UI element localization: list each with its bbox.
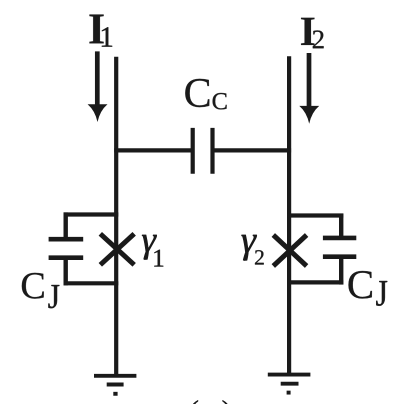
Josephson junction X right (junction 2) xyxy=(273,235,306,266)
ground right bar1 xyxy=(268,373,311,377)
wire: right CJ branch bottom stub xyxy=(339,258,343,285)
wire: left CJ branch bottom horizontal xyxy=(64,281,119,285)
label CJ left xyxy=(22,273,44,299)
ground right bar2 xyxy=(281,382,299,386)
capacitor CJ left bottom plate xyxy=(49,255,84,260)
ground right bar3 xyxy=(287,391,291,395)
capacitor CJ right top plate xyxy=(323,236,356,241)
wire: left CJ branch top horizontal xyxy=(64,212,119,216)
label CC xyxy=(185,79,209,107)
wire: right CJ branch top horizontal xyxy=(287,213,343,217)
wire: right CJ branch bottom horizontal xyxy=(287,280,343,284)
wire: left CJ branch top stub xyxy=(63,212,67,238)
capacitor CC left plate xyxy=(191,128,195,174)
ground left bar1 xyxy=(94,374,136,378)
capacitor CJ left top plate xyxy=(49,237,84,242)
label I1 xyxy=(89,15,103,44)
Josephson junction X left (junction 1) xyxy=(100,234,134,265)
wire: coupling horizontal left segment xyxy=(114,148,193,152)
capacitor CC right plate xyxy=(210,128,214,174)
ground left bar3 xyxy=(113,392,117,396)
caption (a) right parenthesis (clipped at bottom) xyxy=(223,400,231,404)
wire: left vertical rail xyxy=(114,57,118,376)
label gamma2 xyxy=(242,235,257,261)
wire: right CJ branch top stub xyxy=(339,214,343,238)
capacitor CJ right bottom plate xyxy=(323,254,356,259)
label CJ right xyxy=(349,271,372,298)
arrow I2 xyxy=(307,53,312,109)
label gamma1 xyxy=(142,235,157,260)
ground left bar2 xyxy=(107,383,124,387)
caption (a) left parenthesis (clipped at bottom) xyxy=(190,400,198,404)
label I2 xyxy=(301,18,314,45)
wire: coupling horizontal right segment xyxy=(213,148,292,152)
wire: left CJ branch bottom stub xyxy=(63,259,67,286)
arrow I1 xyxy=(95,51,100,107)
wire: right vertical rail xyxy=(287,56,291,374)
